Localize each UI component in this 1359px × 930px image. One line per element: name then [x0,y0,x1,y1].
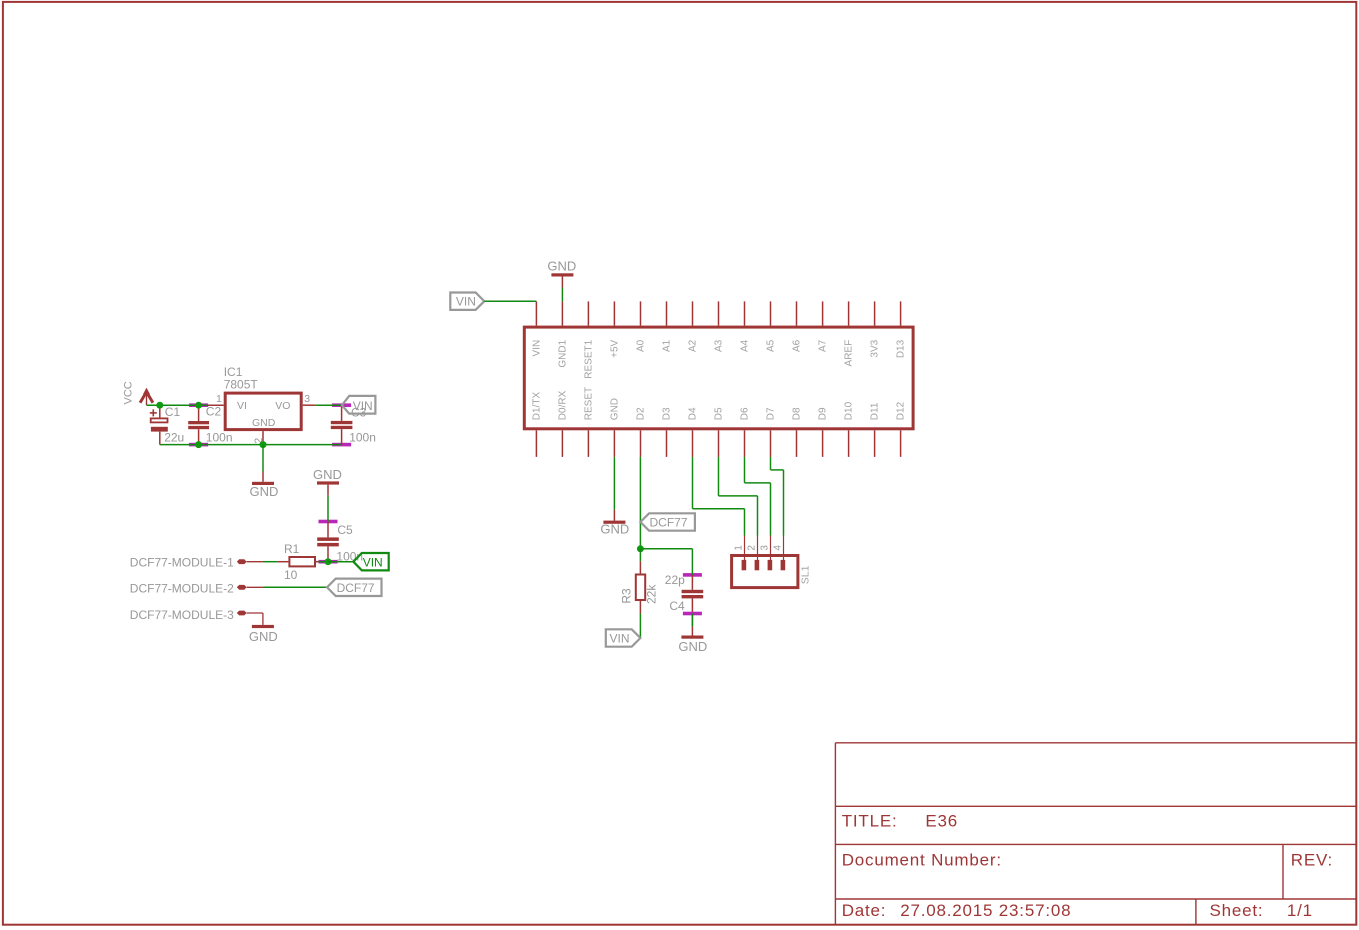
svg-text:22u: 22u [164,430,184,444]
svg-text:A4: A4 [740,339,751,352]
svg-text:VIN: VIN [353,399,373,413]
arduino bottom pin RESET [587,430,589,457]
arduino top pin A7 [822,301,824,325]
arduino top pin A0 [640,301,642,325]
svg-text:D3: D3 [662,407,673,420]
arduino bottom pin D8 [796,430,798,457]
arduino bottom pin D10 [848,430,850,457]
svg-text:C2: C2 [206,404,222,418]
wire VIN flag to VIN pin [484,300,536,302]
arduino top pin RESET1 [587,301,589,325]
svg-text:VIN: VIN [610,631,630,645]
svg-text:AREF: AREF [844,340,855,367]
wire junction to C4 [640,548,692,550]
arduino top pin A3 [718,301,720,325]
arduino top pin D13 [900,301,902,325]
wire GND pin down [613,457,615,510]
arduino bottom pin D11 [874,430,876,457]
arduino top pin A2 [692,301,694,325]
wire VCC rail (top) [147,404,208,406]
IC1 pin 1 (VI) [208,404,224,406]
arduino top pin AREF [848,301,850,325]
junction dot R1/C5 [319,560,338,564]
capacitor C4 (22p) [683,573,702,577]
capacitor C3 (100n) [332,403,351,407]
svg-text:D12: D12 [896,401,907,420]
wire junction to R3 [639,549,641,562]
resistor R3 (22k) [639,561,641,573]
svg-text:C5: C5 [337,523,353,537]
svg-text:R1: R1 [284,542,300,556]
wire pin2 to ground [262,445,264,472]
arduino bottom pin D0/RX [561,430,563,457]
svg-text:22p: 22p [665,573,685,587]
capacitor C1 (22u polarized) [159,405,161,417]
junction dot IC1 pin2 / rail [260,441,267,448]
arduino top pin A1 [666,301,668,325]
svg-text:D6: D6 [740,407,751,420]
svg-text:GND1: GND1 [557,339,568,367]
svg-text:C1: C1 [165,405,181,419]
svg-text:A2: A2 [688,339,699,352]
junction dot C2 bottom [195,441,202,448]
svg-text:D4: D4 [688,407,699,420]
SL1 pin 3 [770,536,772,561]
svg-text:100n: 100n [206,430,233,444]
svg-text:VI: VI [237,400,247,412]
svg-text:3: 3 [304,393,310,405]
ground symbol GND (below C4) [691,627,693,636]
net flag DCF77 (module2) [327,579,382,596]
voltage regulator IC1 7805T [225,393,301,430]
arduino top pin A6 [796,301,798,325]
svg-text:27.08.2015 23:57:08: 27.08.2015 23:57:08 [900,901,1071,920]
wire D2 net down [639,457,641,549]
arduino bottom pin GND [613,430,615,457]
svg-text:+5V: +5V [609,339,620,357]
wire GND rail (bottom) [160,444,342,446]
wire GND to GND1 pin [561,288,563,302]
junction dot C2 top [195,402,202,409]
svg-text:A3: A3 [714,339,725,352]
net flag VIN (at C3) [342,396,376,414]
svg-text:1/1: 1/1 [1287,901,1313,920]
svg-text:4: 4 [772,545,783,551]
arduino top pin VIN [535,301,537,325]
connector SL1 [732,556,798,588]
arduino bottom pin D1/TX [535,430,537,457]
svg-text:VIN: VIN [363,555,383,569]
svg-text:3V3: 3V3 [870,339,881,357]
svg-text:A0: A0 [636,339,647,352]
svg-text:SL1: SL1 [799,565,811,584]
svg-text:GND: GND [249,629,278,644]
svg-text:VIN: VIN [456,295,476,309]
svg-text:A7: A7 [818,339,829,352]
wire R3 to VIN flag [639,614,641,639]
svg-text:RESET1: RESET1 [583,339,594,378]
arduino bottom pin D9 [822,430,824,457]
svg-text:VO: VO [275,400,290,412]
IC1 pin 3 (VO) [303,404,316,406]
arduino bottom pin D5 [718,430,720,457]
svg-text:A6: A6 [792,339,803,352]
arduino bottom pin D2 [640,430,642,457]
capacitor C5 (100n) [319,520,338,524]
net flag DCF77 (at D2) [640,513,695,530]
arduino top pin +5V [613,301,615,325]
svg-text:DCF77-MODULE-1: DCF77-MODULE-1 [130,556,234,570]
svg-text:1: 1 [216,393,222,405]
net flag VIN (below R3) [606,629,641,646]
junction dot D2/R3/C4 [637,545,644,552]
svg-text:GND: GND [547,259,576,274]
SL1 pin 4 [783,536,785,561]
svg-text:Sheet:: Sheet: [1210,901,1264,920]
svg-text:2: 2 [746,545,757,551]
arduino top pin 3V3 [874,301,876,325]
svg-text:10: 10 [284,568,298,582]
svg-text:D1/TX: D1/TX [531,392,542,421]
wire GND to C5 [327,496,329,522]
IC1 pin 2 (GND) [262,431,264,445]
svg-text:A1: A1 [662,339,673,352]
wire C4 to ground [691,614,693,627]
junction dot C1/VCC [156,402,163,409]
svg-text:E36: E36 [925,812,958,831]
svg-text:7805T: 7805T [224,378,259,392]
svg-text:GND: GND [609,398,620,420]
svg-text:22k: 22k [644,584,658,604]
svg-text:DCF77: DCF77 [650,516,688,530]
svg-text:1: 1 [733,545,744,551]
svg-text:D11: D11 [870,402,881,420]
svg-text:D13: D13 [896,339,907,358]
svg-text:REV:: REV: [1291,850,1333,869]
svg-text:GND: GND [252,417,276,429]
wire D6 to SL1 pin3 [744,457,746,483]
svg-text:GND: GND [678,639,707,654]
svg-text:GND: GND [313,467,342,482]
svg-text:D10: D10 [844,401,855,420]
resistor R1 (10) [277,561,288,563]
svg-text:Date:: Date: [842,901,887,920]
svg-text:DCF77-MODULE-3: DCF77-MODULE-3 [130,608,234,622]
svg-text:GND: GND [250,484,279,499]
wire junction to VIN flag [328,561,353,563]
svg-text:D0/RX: D0/RX [557,390,568,420]
svg-text:100n: 100n [349,431,376,445]
wire module2 to DCF77 flag [263,586,327,588]
ground symbol GND (below arduino) [613,510,615,521]
svg-text:D7: D7 [766,407,777,420]
wire D7 to SL1 pin4 [770,457,772,470]
supply symbol VCC [146,391,148,405]
SL1 pin 2 [757,536,759,561]
svg-text:D8: D8 [792,407,803,420]
svg-text:A5: A5 [766,339,777,352]
svg-text:Document Number:: Document Number: [842,850,1002,869]
svg-text:TITLE:: TITLE: [842,812,898,831]
wire module1 to R1 [263,561,278,563]
arduino bottom pin D3 [666,430,668,457]
ground symbol GND (below IC1) [262,472,264,482]
net flag VIN (arduino) [450,293,484,310]
wire D4 to SL1 pin1 [692,457,694,509]
arduino module body [524,327,913,429]
svg-text:DCF77-MODULE-2: DCF77-MODULE-2 [130,582,234,596]
arduino top pin A4 [744,301,746,325]
svg-text:VCC: VCC [122,381,134,404]
arduino bottom pin D6 [744,430,746,457]
wire pin3 to C3 [316,404,342,406]
svg-text:D5: D5 [714,407,725,420]
svg-text:GND: GND [600,522,629,537]
svg-text:VIN: VIN [531,340,542,357]
title block frame [834,743,836,925]
ground symbol GND (module3) [252,625,274,628]
arduino bottom pin D7 [770,430,772,457]
arduino bottom pin D4 [692,430,694,457]
arduino top pin A5 [770,301,772,325]
svg-text:D2: D2 [636,407,647,420]
svg-text:DCF77: DCF77 [337,581,375,595]
svg-text:C4: C4 [669,599,685,613]
arduino top pin GND1 [561,301,563,325]
SL1 pin 1 [744,536,746,561]
wire D5 to SL1 pin2 [718,457,720,496]
svg-text:D9: D9 [818,407,829,420]
net flag VIN (green, at R1) [353,553,388,570]
capacitor C2 (100n) [189,403,208,407]
arduino bottom pin D12 [900,430,902,457]
svg-text:3: 3 [759,545,770,551]
svg-text:RESET: RESET [583,387,594,420]
svg-text:R3: R3 [620,588,634,604]
